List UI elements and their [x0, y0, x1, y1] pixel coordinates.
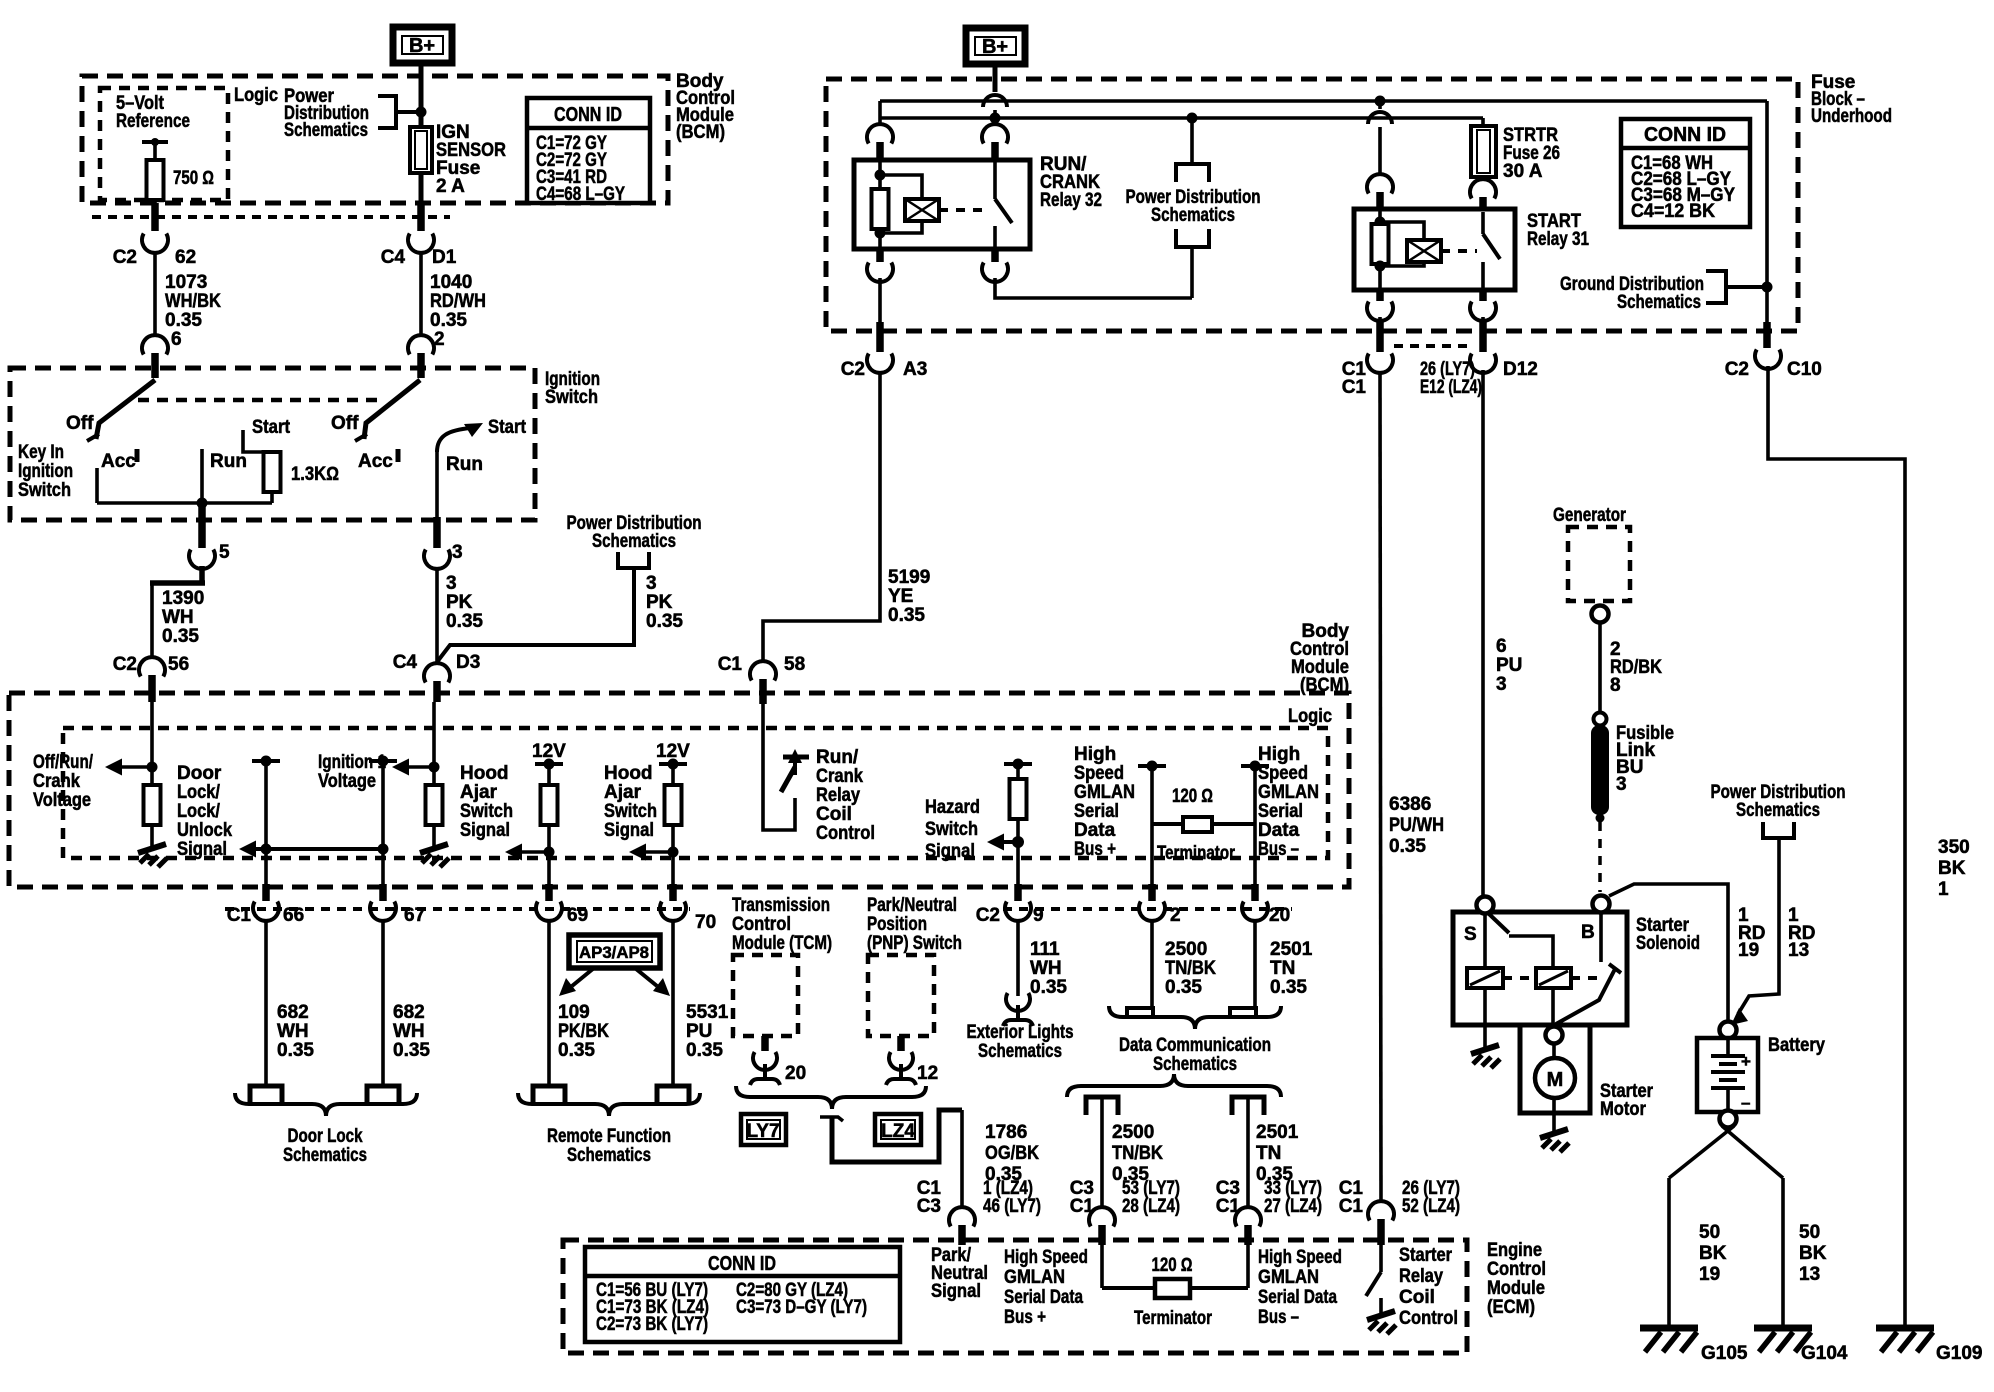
svg-text:1040: 1040 [430, 272, 472, 293]
svg-text:CONN ID: CONN ID [554, 104, 622, 126]
svg-text:Underhood: Underhood [1811, 106, 1892, 127]
svg-text:19: 19 [1699, 1264, 1720, 1285]
svg-text:5199: 5199 [888, 567, 930, 588]
svg-text:30 A: 30 A [1503, 161, 1543, 182]
svg-text:Signal: Signal [931, 1281, 981, 1302]
svg-text:G109: G109 [1936, 1343, 1982, 1364]
svg-text:C2: C2 [1725, 359, 1749, 380]
svg-text:20: 20 [785, 1063, 806, 1084]
svg-text:C3=73 D–GY (LY7): C3=73 D–GY (LY7) [736, 1297, 867, 1318]
svg-text:Switch: Switch [604, 801, 657, 822]
svg-text:(PNP) Switch: (PNP) Switch [867, 933, 962, 954]
svg-text:C4: C4 [381, 247, 406, 268]
svg-text:350: 350 [1938, 837, 1970, 858]
svg-text:(BCM): (BCM) [1300, 675, 1349, 696]
svg-text:Off/Run/: Off/Run/ [33, 752, 94, 773]
svg-text:Start: Start [488, 417, 527, 438]
svg-text:Battery: Battery [1768, 1035, 1825, 1056]
svg-text:6: 6 [1496, 636, 1507, 657]
svg-text:Remote Function: Remote Function [547, 1126, 671, 1147]
svg-text:Voltage: Voltage [318, 771, 376, 792]
svg-text:Engine: Engine [1487, 1240, 1542, 1261]
svg-text:TN: TN [1270, 958, 1295, 979]
svg-text:5531: 5531 [686, 1002, 729, 1023]
svg-text:B+: B+ [409, 35, 435, 57]
svg-text:0.35: 0.35 [1389, 836, 1426, 857]
svg-text:6: 6 [171, 329, 182, 350]
svg-text:Serial: Serial [1258, 801, 1303, 822]
svg-text:B+: B+ [982, 36, 1008, 58]
svg-text:C4: C4 [393, 652, 418, 673]
svg-text:Bus +: Bus + [1004, 1307, 1046, 1328]
svg-text:Position: Position [867, 914, 927, 935]
svg-text:S: S [1464, 924, 1477, 945]
svg-text:6386: 6386 [1389, 794, 1431, 815]
svg-text:0.35: 0.35 [393, 1040, 430, 1061]
svg-text:19: 19 [1738, 940, 1759, 961]
svg-text:C2: C2 [113, 247, 137, 268]
svg-text:High Speed: High Speed [1004, 1247, 1088, 1268]
svg-text:CONN ID: CONN ID [1644, 124, 1726, 146]
svg-text:C2: C2 [976, 905, 1000, 926]
svg-text:Park/Neutral: Park/Neutral [867, 895, 957, 916]
svg-text:20: 20 [1269, 905, 1290, 926]
svg-text:GMLAN: GMLAN [1258, 782, 1319, 803]
svg-text:Serial: Serial [1074, 801, 1119, 822]
svg-text:High Speed: High Speed [1258, 1247, 1342, 1268]
svg-text:Run/: Run/ [816, 747, 859, 768]
svg-text:0.35: 0.35 [888, 605, 925, 626]
svg-text:Module: Module [1487, 1278, 1545, 1299]
svg-text:0.35: 0.35 [558, 1040, 595, 1061]
svg-text:Schematics: Schematics [978, 1041, 1062, 1062]
svg-text:12: 12 [917, 1063, 938, 1084]
svg-text:13: 13 [1788, 940, 1809, 961]
svg-text:2 A: 2 A [436, 176, 465, 197]
svg-text:0.35: 0.35 [1165, 977, 1202, 998]
svg-text:B: B [1581, 922, 1595, 943]
svg-text:Switch: Switch [925, 819, 978, 840]
svg-text:C1: C1 [718, 654, 743, 675]
svg-text:70: 70 [695, 912, 716, 933]
svg-text:66: 66 [283, 905, 304, 926]
svg-text:46 (LY7): 46 (LY7) [983, 1196, 1041, 1217]
svg-text:TN/BK: TN/BK [1165, 958, 1216, 979]
svg-text:TN/BK: TN/BK [1112, 1143, 1163, 1164]
svg-text:C10: C10 [1787, 359, 1822, 380]
svg-text:PU: PU [686, 1021, 712, 1042]
svg-text:C2: C2 [113, 654, 137, 675]
svg-text:WH: WH [393, 1021, 425, 1042]
svg-text:D12: D12 [1503, 359, 1538, 380]
svg-text:Data: Data [1074, 820, 1116, 841]
svg-text:Run: Run [210, 451, 247, 472]
svg-text:0.35: 0.35 [646, 611, 683, 632]
svg-text:D3: D3 [456, 652, 480, 673]
svg-text:120 Ω: 120 Ω [1152, 1255, 1193, 1276]
svg-text:Hazard: Hazard [925, 797, 980, 818]
svg-text:0.35: 0.35 [165, 310, 202, 331]
svg-text:Schematics: Schematics [1617, 292, 1701, 313]
svg-text:Ignition: Ignition [18, 461, 73, 482]
svg-text:M: M [1547, 1069, 1564, 1091]
svg-text:Data Communication: Data Communication [1119, 1035, 1271, 1056]
svg-text:Start: Start [252, 417, 291, 438]
svg-text:Crank: Crank [816, 766, 863, 787]
svg-text:Bus –: Bus – [1258, 839, 1299, 860]
svg-text:0.35: 0.35 [162, 626, 199, 647]
svg-text:D1: D1 [432, 247, 457, 268]
svg-text:C4=68 L–GY: C4=68 L–GY [536, 184, 625, 205]
svg-text:Signal: Signal [604, 820, 654, 841]
svg-text:Hood: Hood [604, 763, 653, 784]
svg-text:Control: Control [1487, 1259, 1546, 1280]
svg-text:Terminator: Terminator [1157, 843, 1235, 864]
svg-text:Generator: Generator [1553, 505, 1626, 526]
svg-text:1073: 1073 [165, 272, 207, 293]
svg-text:G105: G105 [1701, 1343, 1748, 1364]
svg-text:Lock/: Lock/ [177, 801, 221, 822]
svg-text:Relay: Relay [816, 785, 860, 806]
svg-text:Ajar: Ajar [460, 782, 498, 803]
svg-text:C2: C2 [841, 359, 865, 380]
svg-text:120 Ω: 120 Ω [1172, 786, 1213, 807]
svg-text:GMLAN: GMLAN [1074, 782, 1135, 803]
svg-text:3: 3 [1496, 674, 1507, 695]
svg-text:C4=12 BK: C4=12 BK [1631, 201, 1715, 222]
svg-text:Terminator: Terminator [1134, 1308, 1212, 1329]
svg-text:3: 3 [446, 573, 457, 594]
svg-text:PK: PK [646, 592, 673, 613]
svg-text:Key In: Key In [18, 442, 64, 463]
svg-text:WH: WH [162, 607, 194, 628]
svg-text:Voltage: Voltage [33, 790, 91, 811]
svg-text:Schematics: Schematics [283, 1145, 367, 1166]
svg-text:Door Lock: Door Lock [288, 1126, 363, 1147]
svg-text:0.35: 0.35 [1270, 977, 1307, 998]
svg-text:3: 3 [646, 573, 657, 594]
svg-text:682: 682 [277, 1002, 309, 1023]
svg-text:OG/BK: OG/BK [985, 1143, 1039, 1164]
svg-text:Coil: Coil [1399, 1287, 1435, 1308]
svg-text:E12 (LZ4): E12 (LZ4) [1420, 377, 1482, 398]
svg-text:GMLAN: GMLAN [1004, 1267, 1065, 1288]
svg-text:(BCM): (BCM) [676, 122, 725, 143]
svg-text:69: 69 [567, 905, 588, 926]
svg-text:Ajar: Ajar [604, 782, 642, 803]
svg-text:BK: BK [1938, 858, 1966, 879]
svg-text:BK: BK [1799, 1243, 1827, 1264]
svg-text:Schematics: Schematics [284, 120, 368, 141]
svg-text:Schematics: Schematics [567, 1145, 651, 1166]
svg-text:High: High [1074, 744, 1116, 765]
svg-text:PU/WH: PU/WH [1389, 815, 1444, 836]
svg-text:Speed: Speed [1258, 763, 1308, 784]
svg-text:52 (LZ4): 52 (LZ4) [1402, 1196, 1460, 1217]
svg-text:5: 5 [219, 542, 230, 563]
svg-text:C3: C3 [917, 1196, 941, 1217]
svg-text:28 (LZ4): 28 (LZ4) [1122, 1196, 1180, 1217]
svg-text:Control: Control [1399, 1308, 1458, 1329]
svg-text:–: – [1741, 1093, 1750, 1112]
svg-text:8: 8 [1610, 675, 1621, 696]
svg-text:Switch: Switch [545, 387, 598, 408]
svg-text:9: 9 [1033, 905, 1044, 926]
svg-text:Crank: Crank [33, 771, 80, 792]
svg-text:Relay: Relay [1399, 1266, 1443, 1287]
svg-text:Schematics: Schematics [1736, 800, 1820, 821]
svg-text:1.3KΩ: 1.3KΩ [291, 464, 339, 485]
svg-text:1786: 1786 [985, 1122, 1027, 1143]
svg-text:Switch: Switch [460, 801, 513, 822]
svg-text:Control: Control [816, 823, 875, 844]
svg-text:2500: 2500 [1165, 939, 1207, 960]
svg-text:Logic: Logic [234, 85, 278, 106]
svg-text:Solenoid: Solenoid [1636, 933, 1700, 954]
svg-text:G104: G104 [1801, 1343, 1848, 1364]
svg-text:0.35: 0.35 [277, 1040, 314, 1061]
svg-text:LY7: LY7 [746, 1121, 779, 1142]
svg-text:AP3/AP8: AP3/AP8 [579, 943, 649, 962]
svg-text:56: 56 [168, 654, 189, 675]
svg-text:67: 67 [404, 905, 425, 926]
svg-text:Signal: Signal [925, 841, 975, 862]
svg-text:2501: 2501 [1256, 1122, 1299, 1143]
svg-text:58: 58 [784, 654, 805, 675]
svg-text:Signal: Signal [460, 820, 510, 841]
svg-text:682: 682 [393, 1002, 425, 1023]
svg-text:CONN ID: CONN ID [708, 1253, 776, 1275]
svg-text:Door: Door [177, 763, 222, 784]
svg-text:3: 3 [1616, 774, 1627, 795]
svg-text:Off: Off [331, 413, 359, 434]
svg-text:0.35: 0.35 [446, 611, 483, 632]
svg-text:Acc: Acc [358, 451, 393, 472]
svg-text:1390: 1390 [162, 588, 204, 609]
svg-text:WH: WH [1030, 958, 1062, 979]
svg-text:Speed: Speed [1074, 763, 1124, 784]
svg-text:Bus +: Bus + [1074, 839, 1116, 860]
svg-text:Schematics: Schematics [1153, 1054, 1237, 1075]
svg-text:Exterior Lights: Exterior Lights [967, 1022, 1074, 1043]
svg-text:Reference: Reference [116, 111, 190, 132]
svg-text:TN: TN [1256, 1143, 1281, 1164]
svg-text:PK: PK [446, 592, 473, 613]
svg-text:C1: C1 [1342, 377, 1367, 398]
svg-text:Run: Run [446, 454, 483, 475]
svg-text:(ECM): (ECM) [1487, 1297, 1535, 1318]
svg-text:2501: 2501 [1270, 939, 1313, 960]
svg-text:Serial Data: Serial Data [1004, 1287, 1083, 1308]
svg-text:50: 50 [1799, 1222, 1820, 1243]
svg-text:A3: A3 [903, 359, 927, 380]
svg-text:Transmission: Transmission [732, 895, 830, 916]
svg-text:2500: 2500 [1112, 1122, 1154, 1143]
svg-text:Bus –: Bus – [1258, 1307, 1299, 1328]
svg-text:BK: BK [1699, 1243, 1727, 1264]
svg-text:Module (TCM): Module (TCM) [732, 933, 832, 954]
svg-text:0.35: 0.35 [686, 1040, 723, 1061]
svg-text:13: 13 [1799, 1264, 1820, 1285]
svg-text:Off: Off [66, 413, 94, 434]
svg-text:Signal: Signal [177, 839, 227, 860]
svg-text:Logic: Logic [1288, 706, 1332, 727]
svg-text:PU: PU [1496, 655, 1522, 676]
svg-text:C1: C1 [1339, 1196, 1364, 1217]
svg-text:Relay 32: Relay 32 [1040, 190, 1102, 211]
svg-text:2: 2 [1170, 905, 1181, 926]
svg-text:Starter: Starter [1399, 1245, 1453, 1266]
svg-text:GMLAN: GMLAN [1258, 1267, 1319, 1288]
svg-text:Unlock: Unlock [177, 820, 232, 841]
svg-text:Schematics: Schematics [1151, 205, 1235, 226]
svg-text:Ignition 1: Ignition 1 [318, 752, 386, 773]
svg-text:50: 50 [1699, 1222, 1720, 1243]
svg-text:Acc: Acc [101, 451, 136, 472]
svg-text:Relay 31: Relay 31 [1527, 229, 1589, 250]
svg-text:C2=73 BK (LY7): C2=73 BK (LY7) [596, 1314, 708, 1335]
svg-text:Motor: Motor [1600, 1099, 1647, 1120]
svg-text:WH/BK: WH/BK [165, 291, 221, 312]
svg-text:0.35: 0.35 [430, 310, 467, 331]
svg-text:Hood: Hood [460, 763, 509, 784]
svg-text:C1: C1 [227, 905, 252, 926]
svg-text:3: 3 [452, 542, 463, 563]
svg-text:RD/WH: RD/WH [430, 291, 486, 312]
svg-text:750 Ω: 750 Ω [173, 168, 214, 189]
svg-text:WH: WH [277, 1021, 309, 1042]
svg-text:YE: YE [888, 586, 913, 607]
svg-text:Lock/: Lock/ [177, 782, 221, 803]
svg-text:Data: Data [1258, 820, 1300, 841]
svg-text:1: 1 [1938, 879, 1949, 900]
svg-text:Control: Control [732, 914, 791, 935]
svg-text:111: 111 [1030, 939, 1060, 960]
svg-text:Coil: Coil [816, 804, 852, 825]
svg-text:High: High [1258, 744, 1300, 765]
svg-text:PK/BK: PK/BK [558, 1021, 609, 1042]
svg-text:LZ4: LZ4 [881, 1121, 915, 1142]
svg-text:62: 62 [175, 247, 196, 268]
svg-text:Serial Data: Serial Data [1258, 1287, 1337, 1308]
svg-text:109: 109 [558, 1002, 590, 1023]
svg-text:0.35: 0.35 [1030, 977, 1067, 998]
svg-text:Switch: Switch [18, 480, 71, 501]
svg-text:27 (LZ4): 27 (LZ4) [1264, 1196, 1322, 1217]
svg-text:Schematics: Schematics [592, 531, 676, 552]
